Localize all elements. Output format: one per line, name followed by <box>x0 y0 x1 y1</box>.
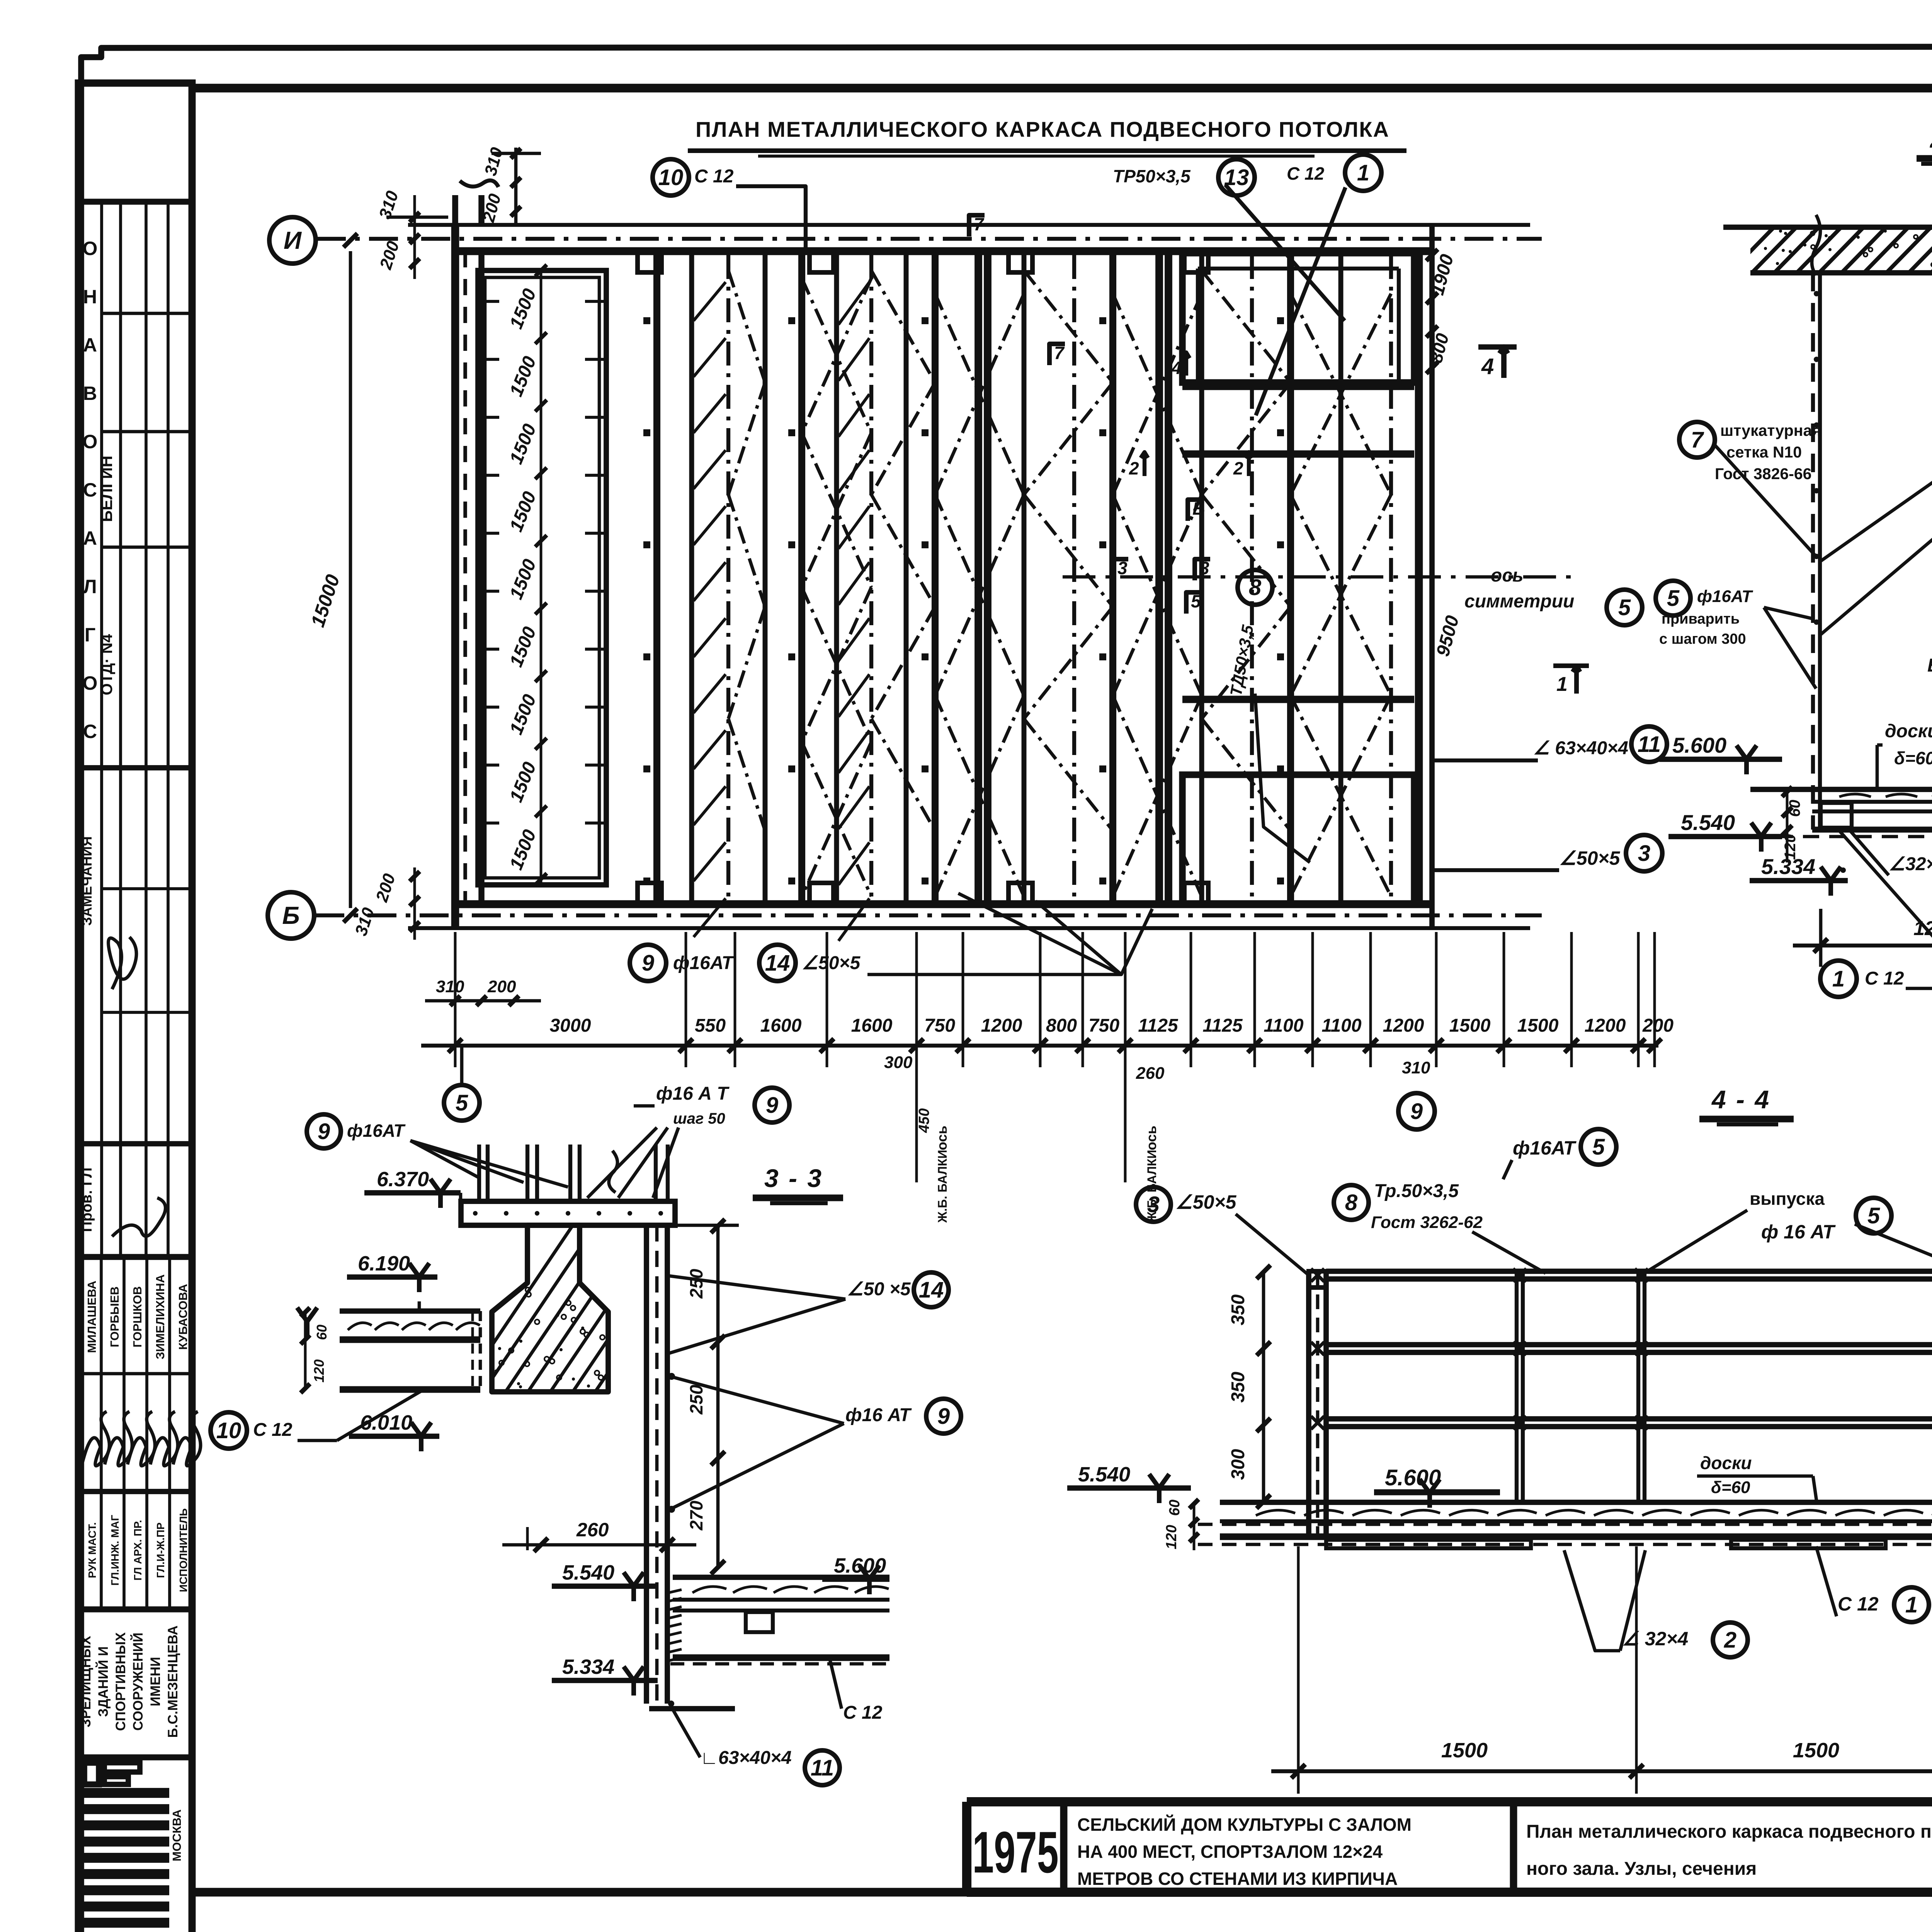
svg-text:ГЛ АРХ. ПР.: ГЛ АРХ. ПР. <box>132 1520 144 1580</box>
svg-text:δ=60: δ=60 <box>1711 1478 1750 1497</box>
svg-text:6.370: 6.370 <box>377 1168 429 1191</box>
svg-text:310: 310 <box>436 977 464 996</box>
svg-text:С 12: С 12 <box>843 1702 883 1723</box>
svg-text:5.540: 5.540 <box>562 1561 614 1584</box>
svg-text:Н: Н <box>83 286 97 308</box>
svg-text:Б: Б <box>282 901 299 929</box>
svg-text:с шагом 300: с шагом 300 <box>1659 631 1746 647</box>
svg-text:ГЛ.ИНЖ. МАГ: ГЛ.ИНЖ. МАГ <box>109 1515 121 1585</box>
svg-text:∠ 32×4: ∠ 32×4 <box>1622 1628 1688 1650</box>
svg-text:Брус 60×60: Брус 60×60 <box>1927 655 1932 676</box>
svg-text:1100: 1100 <box>1264 1015 1304 1036</box>
svg-text:1100: 1100 <box>1321 1015 1362 1036</box>
svg-text:1: 1 <box>1905 1592 1918 1617</box>
svg-text:1200: 1200 <box>981 1015 1022 1036</box>
svg-text:Тр.50×3,5: Тр.50×3,5 <box>1374 1181 1459 1201</box>
svg-text:9: 9 <box>766 1093 778 1118</box>
svg-text:4 - 4: 4 - 4 <box>1711 1085 1770 1114</box>
svg-text:5.334: 5.334 <box>1761 854 1815 879</box>
svg-text:∠50×5: ∠50×5 <box>802 953 861 973</box>
svg-text:2: 2 <box>1233 458 1243 478</box>
svg-text:8: 8 <box>1345 1190 1358 1215</box>
svg-text:ф16АТ: ф16АТ <box>347 1121 406 1141</box>
svg-text:ЗАМЕЧАНИЯ: ЗАМЕЧАНИЯ <box>79 836 95 926</box>
svg-text:∠ 63×40×4: ∠ 63×40×4 <box>1533 738 1628 759</box>
svg-text:260: 260 <box>576 1519 609 1541</box>
svg-text:9: 9 <box>318 1119 330 1144</box>
svg-text:1: 1 <box>1832 966 1845 992</box>
svg-text:1125: 1125 <box>1138 1015 1179 1036</box>
svg-text:200: 200 <box>487 977 516 996</box>
svg-text:МЕТРОВ СО СТЕНАМИ ИЗ КИ: МЕТРОВ СО СТЕНАМИ ИЗ КИРПИЧА <box>1077 1869 1398 1889</box>
svg-text:ось: ось <box>1491 565 1524 586</box>
svg-text:С: С <box>83 721 97 742</box>
svg-text:270: 270 <box>686 1500 706 1531</box>
svg-text:6.190: 6.190 <box>358 1252 410 1275</box>
svg-text:5: 5 <box>1191 591 1201 611</box>
svg-text:1500: 1500 <box>1441 1739 1488 1762</box>
svg-text:300: 300 <box>1228 1449 1248 1480</box>
svg-text:ось: ось <box>934 1126 950 1150</box>
svg-text:1200: 1200 <box>1383 1015 1424 1036</box>
svg-text:ось: ось <box>1143 1126 1159 1150</box>
svg-text:∠50×5: ∠50×5 <box>1175 1191 1237 1213</box>
svg-text:7: 7 <box>1054 343 1065 363</box>
svg-text:2: 2 <box>1129 458 1139 478</box>
svg-text:ного зала. Узлы, сечени: ного зала. Узлы, сечения <box>1526 1859 1757 1879</box>
svg-text:План металлического каркаса: План металлического каркаса подвесного п… <box>1526 1821 1932 1842</box>
svg-text:ПЛАН МЕТАЛЛИЧЕСКОГО КАРКАСА: ПЛАН МЕТАЛЛИЧЕСКОГО КАРКАСА ПОДВЕСНОГО П… <box>696 117 1389 141</box>
svg-text:О: О <box>83 238 98 259</box>
svg-text:5.600: 5.600 <box>1672 733 1726 757</box>
svg-text:260: 260 <box>1136 1064 1165 1083</box>
svg-text:3: 3 <box>1638 841 1650 866</box>
svg-text:9: 9 <box>1410 1099 1423 1124</box>
svg-text:выпуска: выпуска <box>1750 1189 1825 1209</box>
svg-text:1200: 1200 <box>1913 917 1932 940</box>
svg-text:250: 250 <box>686 1384 706 1415</box>
svg-text:ГОРБЫЕВ: ГОРБЫЕВ <box>108 1286 121 1347</box>
svg-text:ф16АТ: ф16АТ <box>673 953 735 973</box>
svg-text:доски: доски <box>1885 721 1932 742</box>
svg-text:1200: 1200 <box>1585 1015 1626 1036</box>
svg-text:60: 60 <box>314 1325 330 1340</box>
svg-text:5.540: 5.540 <box>1681 810 1735 835</box>
svg-text:РУК МАСТ.: РУК МАСТ. <box>86 1522 98 1578</box>
svg-text:С 12: С 12 <box>253 1420 293 1440</box>
svg-text:200: 200 <box>1642 1015 1673 1036</box>
svg-text:С 12: С 12 <box>694 166 734 187</box>
svg-text:3: 3 <box>1199 558 1209 578</box>
svg-text:450: 450 <box>916 1108 932 1133</box>
svg-text:КУБАСОВА: КУБАСОВА <box>176 1284 190 1350</box>
svg-text:350: 350 <box>1228 1294 1248 1325</box>
svg-text:приварить: приварить <box>1662 611 1740 627</box>
svg-text:11: 11 <box>1638 732 1661 757</box>
svg-text:350: 350 <box>1228 1372 1248 1403</box>
svg-text:∠50 ×5: ∠50 ×5 <box>847 1279 911 1299</box>
svg-text:10: 10 <box>216 1418 241 1443</box>
svg-text:1500: 1500 <box>1517 1015 1559 1036</box>
svg-text:СООРУЖЕНИЙ: СООРУЖЕНИЙ <box>130 1633 146 1731</box>
svg-text:ТР50×3,5: ТР50×3,5 <box>1113 166 1191 186</box>
svg-text:7: 7 <box>974 214 985 234</box>
svg-text:ЗДАНИЙ И: ЗДАНИЙ И <box>95 1646 111 1717</box>
svg-text:14: 14 <box>919 1277 944 1303</box>
svg-text:1125: 1125 <box>1202 1015 1243 1036</box>
svg-text:МОСКВА: МОСКВА <box>170 1810 184 1861</box>
svg-text:ф 16 АТ: ф 16 АТ <box>1761 1221 1836 1243</box>
svg-text:∠50×5: ∠50×5 <box>1559 847 1621 869</box>
svg-text:300: 300 <box>884 1053 913 1072</box>
svg-text:Гост 3826-66: Гост 3826-66 <box>1715 465 1811 483</box>
svg-text:4: 4 <box>1481 354 1494 379</box>
svg-text:1: 1 <box>1556 673 1568 696</box>
svg-text:В: В <box>83 383 97 404</box>
svg-text:И: И <box>284 226 302 254</box>
svg-text:А: А <box>83 334 97 356</box>
svg-text:ГОРШКОВ: ГОРШКОВ <box>131 1286 144 1348</box>
svg-text:С 12: С 12 <box>1287 163 1325 184</box>
svg-text:∠32×4: ∠32×4 <box>1889 854 1932 874</box>
svg-text:ИСПОЛНИТЕЛЬ: ИСПОЛНИТЕЛЬ <box>177 1508 189 1592</box>
svg-text:1600: 1600 <box>760 1015 802 1036</box>
svg-text:Пров⁚ ГЛ: Пров⁚ ГЛ <box>79 1168 95 1232</box>
svg-text:1: 1 <box>1357 160 1369 185</box>
svg-text:310: 310 <box>1402 1058 1430 1077</box>
svg-text:Б: Б <box>1192 498 1205 519</box>
svg-text:Б.С.МЕЗЕНЦЕВА: Б.С.МЕЗЕНЦЕВА <box>165 1626 180 1738</box>
svg-text:штукатурная: штукатурная <box>1720 422 1821 439</box>
svg-text:250: 250 <box>686 1269 706 1299</box>
svg-text:СЕЛЬСКИЙ ДОМ КУЛЬТУРЫ С З: СЕЛЬСКИЙ ДОМ КУЛЬТУРЫ С ЗАЛОМ <box>1077 1815 1412 1835</box>
svg-text:ОТД· N4: ОТД· N4 <box>99 634 116 695</box>
svg-text:О: О <box>83 672 98 694</box>
svg-text:БЕЛГИН: БЕЛГИН <box>97 456 116 522</box>
svg-text:ЗРЕЛИЩНЫХ: ЗРЕЛИЩНЫХ <box>78 1636 94 1728</box>
svg-text:3000: 3000 <box>550 1015 591 1036</box>
svg-text:5: 5 <box>1867 1203 1880 1228</box>
svg-text:1500: 1500 <box>1449 1015 1491 1036</box>
svg-text:ИМЕНИ: ИМЕНИ <box>148 1657 163 1706</box>
svg-text:1975: 1975 <box>972 1820 1058 1885</box>
svg-text:симметрии: симметрии <box>1464 591 1574 612</box>
svg-text:5: 5 <box>1667 586 1680 611</box>
svg-text:5: 5 <box>1618 595 1631 620</box>
svg-text:2: 2 <box>1724 1628 1736 1653</box>
svg-text:5: 5 <box>456 1090 468 1116</box>
svg-text:О: О <box>83 431 98 452</box>
svg-text:С: С <box>83 479 97 501</box>
svg-text:9: 9 <box>642 951 654 976</box>
svg-text:10: 10 <box>658 165 684 190</box>
svg-text:ф16АТ: ф16АТ <box>1513 1137 1577 1159</box>
svg-text:4: 4 <box>1171 358 1182 378</box>
svg-text:120: 120 <box>311 1359 327 1383</box>
svg-text:120: 120 <box>1163 1525 1180 1549</box>
svg-text:МИЛАШЕВА: МИЛАШЕВА <box>85 1281 99 1353</box>
svg-text:1600: 1600 <box>851 1015 893 1036</box>
svg-text:14: 14 <box>765 951 790 976</box>
svg-text:8: 8 <box>1249 575 1262 600</box>
svg-text:1500: 1500 <box>1793 1739 1839 1762</box>
svg-text:ф16 А Т: ф16 А Т <box>656 1083 730 1104</box>
svg-text:ф16 АТ: ф16 АТ <box>845 1405 912 1425</box>
svg-text:9: 9 <box>937 1404 950 1429</box>
svg-text:СПОРТИВНЫХ: СПОРТИВНЫХ <box>113 1632 128 1731</box>
svg-text:5: 5 <box>1592 1134 1605 1160</box>
svg-text:5.334: 5.334 <box>562 1655 614 1679</box>
svg-text:3: 3 <box>1117 558 1128 578</box>
svg-text:шаг 50: шаг 50 <box>673 1110 725 1127</box>
svg-text:∟63×40×4: ∟63×40×4 <box>700 1748 792 1768</box>
svg-text:Гост 3262-62: Гост 3262-62 <box>1371 1213 1483 1232</box>
svg-text:НА 400 МЕСТ, СПОРТЗАЛОМ 1: НА 400 МЕСТ, СПОРТЗАЛОМ 12×24 <box>1077 1842 1383 1862</box>
svg-text:5.540: 5.540 <box>1078 1463 1130 1486</box>
svg-text:С 12: С 12 <box>1865 968 1904 989</box>
svg-text:3: 3 <box>1147 1192 1160 1217</box>
svg-text:сетка N10: сетка N10 <box>1726 443 1802 461</box>
svg-text:2 - 2: 2 - 2 <box>1929 124 1932 153</box>
svg-text:Л: Л <box>83 576 97 597</box>
svg-text:3 - 3: 3 - 3 <box>764 1164 823 1192</box>
svg-text:А: А <box>83 527 97 549</box>
svg-text:800: 800 <box>1046 1015 1077 1036</box>
svg-text:750: 750 <box>924 1015 955 1036</box>
svg-text:60: 60 <box>1167 1500 1183 1516</box>
svg-text:С 12: С 12 <box>1838 1593 1879 1615</box>
svg-text:ЗИМЕЛИХИНА: ЗИМЕЛИХИНА <box>153 1274 167 1359</box>
svg-text:Г: Г <box>85 624 95 646</box>
svg-text:11: 11 <box>811 1755 834 1781</box>
svg-text:750: 750 <box>1088 1015 1119 1036</box>
svg-text:ГЛ.И-Ж.ПР: ГЛ.И-Ж.ПР <box>155 1522 167 1578</box>
svg-text:ф16АТ: ф16АТ <box>1697 587 1753 606</box>
svg-text:550: 550 <box>695 1015 726 1036</box>
svg-text:Ж.Б. БАЛКИ: Ж.Б. БАЛКИ <box>935 1150 949 1223</box>
svg-text:δ=60: δ=60 <box>1894 748 1932 768</box>
svg-text:доски: доски <box>1700 1453 1752 1473</box>
svg-text:7: 7 <box>1691 427 1704 452</box>
